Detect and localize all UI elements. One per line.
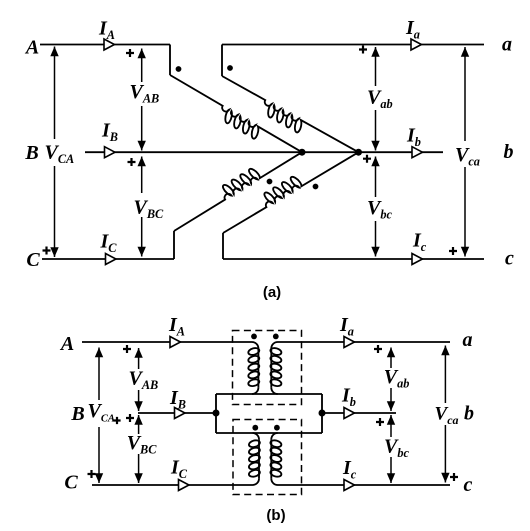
svg-text:B: B [70, 403, 84, 425]
wire line B-b (a) [85, 151, 443, 153]
winding T2 primary coil (b) [258, 439, 260, 478]
wire line c (b) [271, 479, 450, 485]
wire step down from A to winding 1 (a) [169, 45, 171, 76]
voltage arrow V_BC (b) [138, 415, 140, 434]
voltage arrow V_ab (a) [375, 47, 377, 86]
voltage arrow V_CA (a) [54, 47, 56, 140]
polarity dot winding L4 (a) [313, 184, 319, 190]
svg-text:a: a [502, 34, 512, 56]
current arrow I_A (b) [170, 337, 180, 348]
svg-text:A: A [59, 333, 74, 355]
plus sign V_BC top (a) [128, 158, 136, 166]
polarity dot T1 primary (b) [251, 334, 257, 340]
current arrow I_C (b) [179, 480, 189, 491]
wire upper rail B (b) [216, 393, 322, 395]
svg-text:c: c [464, 474, 473, 496]
wire LR coil top curve (b) [271, 433, 277, 439]
winding T1 primary coil (b) [257, 348, 259, 387]
svg-text:a: a [463, 329, 473, 351]
plus sign V_ab top (a) [359, 46, 367, 54]
svg-text:C: C [26, 249, 40, 271]
wire step up from C to winding 3 (a) [173, 231, 175, 259]
wire line A (b) [82, 342, 258, 348]
plus sign V_ca bottom (a) [449, 247, 457, 255]
wire step down from a to winding 2 (a) [221, 45, 223, 77]
current arrow I_C (a) [106, 254, 116, 265]
winding L2 upper-right (a) [216, 76, 359, 163]
transformer T2 dashed enclosure (b) [233, 420, 302, 495]
wire line c right segment (a) [223, 258, 484, 260]
voltage arrow V_BC (a) [141, 157, 143, 194]
plus sign V_AB top (a) [126, 49, 134, 57]
voltage arrow V_ab (b) [390, 348, 392, 369]
plus sign V_bc top (a) [363, 155, 371, 163]
transformer T1 dashed enclosure (b) [233, 331, 302, 405]
current arrow I_a (a) [411, 39, 421, 50]
winding L1 upper-left (a) [164, 75, 302, 163]
current arrow I_a (b) [344, 337, 354, 348]
node junction 2 on line B (a) [355, 149, 362, 156]
current arrow I_c (b) [344, 480, 354, 491]
polarity dot T2 primary (b) [252, 425, 258, 431]
svg-text:C: C [64, 472, 78, 494]
voltage arrow V_bc (a) [375, 157, 377, 198]
current arrow I_B (b) [175, 408, 185, 419]
svg-text:b: b [504, 141, 514, 163]
wire lower rail B (b) [216, 432, 322, 434]
wire line a right segment (a) [222, 44, 484, 46]
winding T1 secondary coil (b) [270, 348, 272, 387]
current arrow I_b (a) [412, 147, 422, 158]
node junction left on line B (b) [213, 410, 220, 417]
plus sign V_ab top (b) [374, 345, 382, 353]
current arrow I_b (b) [344, 408, 354, 419]
svg-text:c: c [505, 247, 514, 269]
voltage arrow V_AB (a) [141, 49, 143, 83]
svg-text:(a): (a) [263, 284, 281, 301]
voltage arrow V_bc (b) [390, 415, 392, 437]
wire UL coil bottom curve (b) [252, 388, 258, 394]
wire right riser node (b) [321, 394, 323, 433]
wire LL coil top curve (b) [253, 433, 259, 439]
plus sign V_BC top (b) [126, 414, 134, 422]
current arrow I_A (a) [104, 39, 114, 50]
svg-text:A: A [24, 37, 39, 59]
polarity dot winding L2 (a) [227, 65, 233, 71]
wire UR coil bottom curve (b) [271, 388, 277, 394]
wire line B (b) [138, 412, 216, 414]
wire step up from c to winding 4 (a) [222, 233, 224, 259]
voltage arrow V_ca (b) [444, 346, 446, 404]
wire line A left segment (a) [40, 44, 170, 46]
node junction 1 on line B (a) [299, 149, 306, 156]
wire line b (b) [322, 412, 396, 414]
voltage arrow V_CA (b) [98, 348, 100, 401]
wire line a (b) [271, 342, 450, 348]
plus sign V_CA bottom (b) [88, 470, 96, 478]
plus sign V_AB top (b) [123, 345, 131, 353]
plus sign V_ca bottom (b) [450, 473, 458, 481]
polarity dot winding L3 (a) [267, 179, 273, 185]
node junction right on line b (b) [319, 410, 326, 417]
voltage arrow V_AB (b) [138, 348, 140, 369]
voltage arrow V_ca (a) [464, 47, 466, 141]
current arrow I_B (a) [105, 147, 115, 158]
current arrow I_c (a) [412, 254, 422, 265]
plus sign V_bc top (b) [376, 418, 384, 426]
wire left riser node (b) [215, 394, 217, 433]
svg-text:B: B [24, 142, 38, 164]
wire line C left segment (a) [42, 258, 174, 260]
polarity dot T2 secondary (b) [274, 425, 280, 431]
plus sign V_CA bottom (a) [43, 247, 51, 255]
winding L4 lower-right (a) [216, 141, 358, 233]
winding T2 secondary coil (b) [270, 439, 272, 478]
wire line C (b) [92, 479, 259, 485]
polarity dot T1 secondary (b) [273, 334, 279, 340]
winding L3 lower-left (a) [167, 141, 302, 231]
polarity dot winding L1 (a) [176, 66, 182, 72]
svg-text:b: b [464, 403, 474, 425]
svg-text:(b): (b) [266, 507, 285, 524]
plus sign after V_CA label (b) [113, 417, 120, 424]
